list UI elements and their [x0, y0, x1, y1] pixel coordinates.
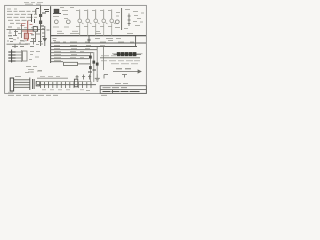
bus wire row 4 — [51, 49, 97, 51]
title block text row1 — [103, 87, 128, 89]
red wire horizontal — [22, 30, 34, 32]
transistor Q1 top-center dark — [53, 9, 61, 13]
top power bus wire — [51, 35, 146, 37]
bus wire row 3 — [51, 46, 137, 48]
capacitor bank bottom-left — [33, 79, 40, 89]
speckle texture mid-left — [7, 27, 44, 45]
cap symbols above ladder — [76, 74, 108, 81]
ladder labels — [40, 76, 90, 90]
transistor row labels — [76, 11, 112, 27]
bottom-left vertical wire — [29, 78, 31, 91]
top-left text block rows — [7, 9, 37, 23]
bottom ladder upper rail — [37, 77, 68, 79]
red marked net vertical — [27, 21, 29, 42]
bottom ladder mid rail — [37, 81, 90, 83]
resistor R10 — [64, 62, 91, 65]
bus wire row 6 — [51, 55, 91, 57]
wire lower-left horizontal — [7, 43, 29, 45]
labels under top bus — [53, 39, 122, 41]
connector J2 pins — [8, 52, 15, 61]
relay K1 pill — [74, 79, 77, 87]
dark mark top-left cluster — [32, 9, 40, 23]
bus wire row 8 — [51, 61, 63, 63]
bus wire row 2 — [51, 42, 146, 44]
vertical bus line — [50, 6, 52, 63]
small parts cluster mid-left — [8, 24, 50, 48]
junction nodes on feeders — [88, 56, 98, 72]
wire right mid — [100, 57, 140, 59]
red label text — [21, 24, 33, 34]
component box U2 — [33, 27, 37, 32]
transistor row stubs — [80, 10, 112, 36]
bottom ladder rail — [37, 84, 96, 86]
top-right vertical wire — [121, 8, 123, 30]
title block text row2 — [103, 91, 140, 93]
center top labels — [53, 8, 74, 28]
vertical feeders to bottom ladder — [90, 47, 103, 82]
transistor Q2 circle — [54, 20, 58, 24]
ladder component legs — [41, 82, 92, 89]
title block note above — [115, 83, 128, 85]
title block box — [100, 86, 146, 94]
bus label texts — [54, 31, 134, 60]
bus wire row 5 — [51, 52, 93, 54]
wires from J2 — [16, 50, 27, 62]
top-right labels — [115, 10, 144, 29]
bus wire row 7 — [51, 58, 89, 60]
capacitor C21 across bus — [88, 36, 91, 43]
right mid labels — [101, 56, 140, 64]
diode chain D7 — [128, 14, 131, 27]
transistor row circles top — [78, 19, 116, 24]
faint parts lower-left — [25, 52, 42, 73]
diode D4 vertical — [43, 26, 46, 46]
vertical trunk wire — [40, 6, 50, 47]
connector J2 body — [11, 50, 13, 63]
bottom-left connector wires — [14, 80, 30, 88]
bottom-left labels — [8, 71, 42, 92]
long wire with arrow right lower — [113, 69, 141, 78]
red component box — [24, 33, 28, 39]
transistor Q3 circle — [66, 20, 70, 24]
border frame — [5, 5, 147, 93]
vertical stub right bus — [135, 36, 137, 47]
diode row label — [112, 53, 143, 55]
rectifier diode row dark — [114, 53, 142, 56]
bottom margin text — [8, 94, 107, 96]
wire center-left horizontal — [7, 29, 45, 31]
margin note text top — [24, 3, 43, 5]
bottom-left connector body — [10, 78, 13, 91]
transistor Q4 — [115, 20, 119, 24]
